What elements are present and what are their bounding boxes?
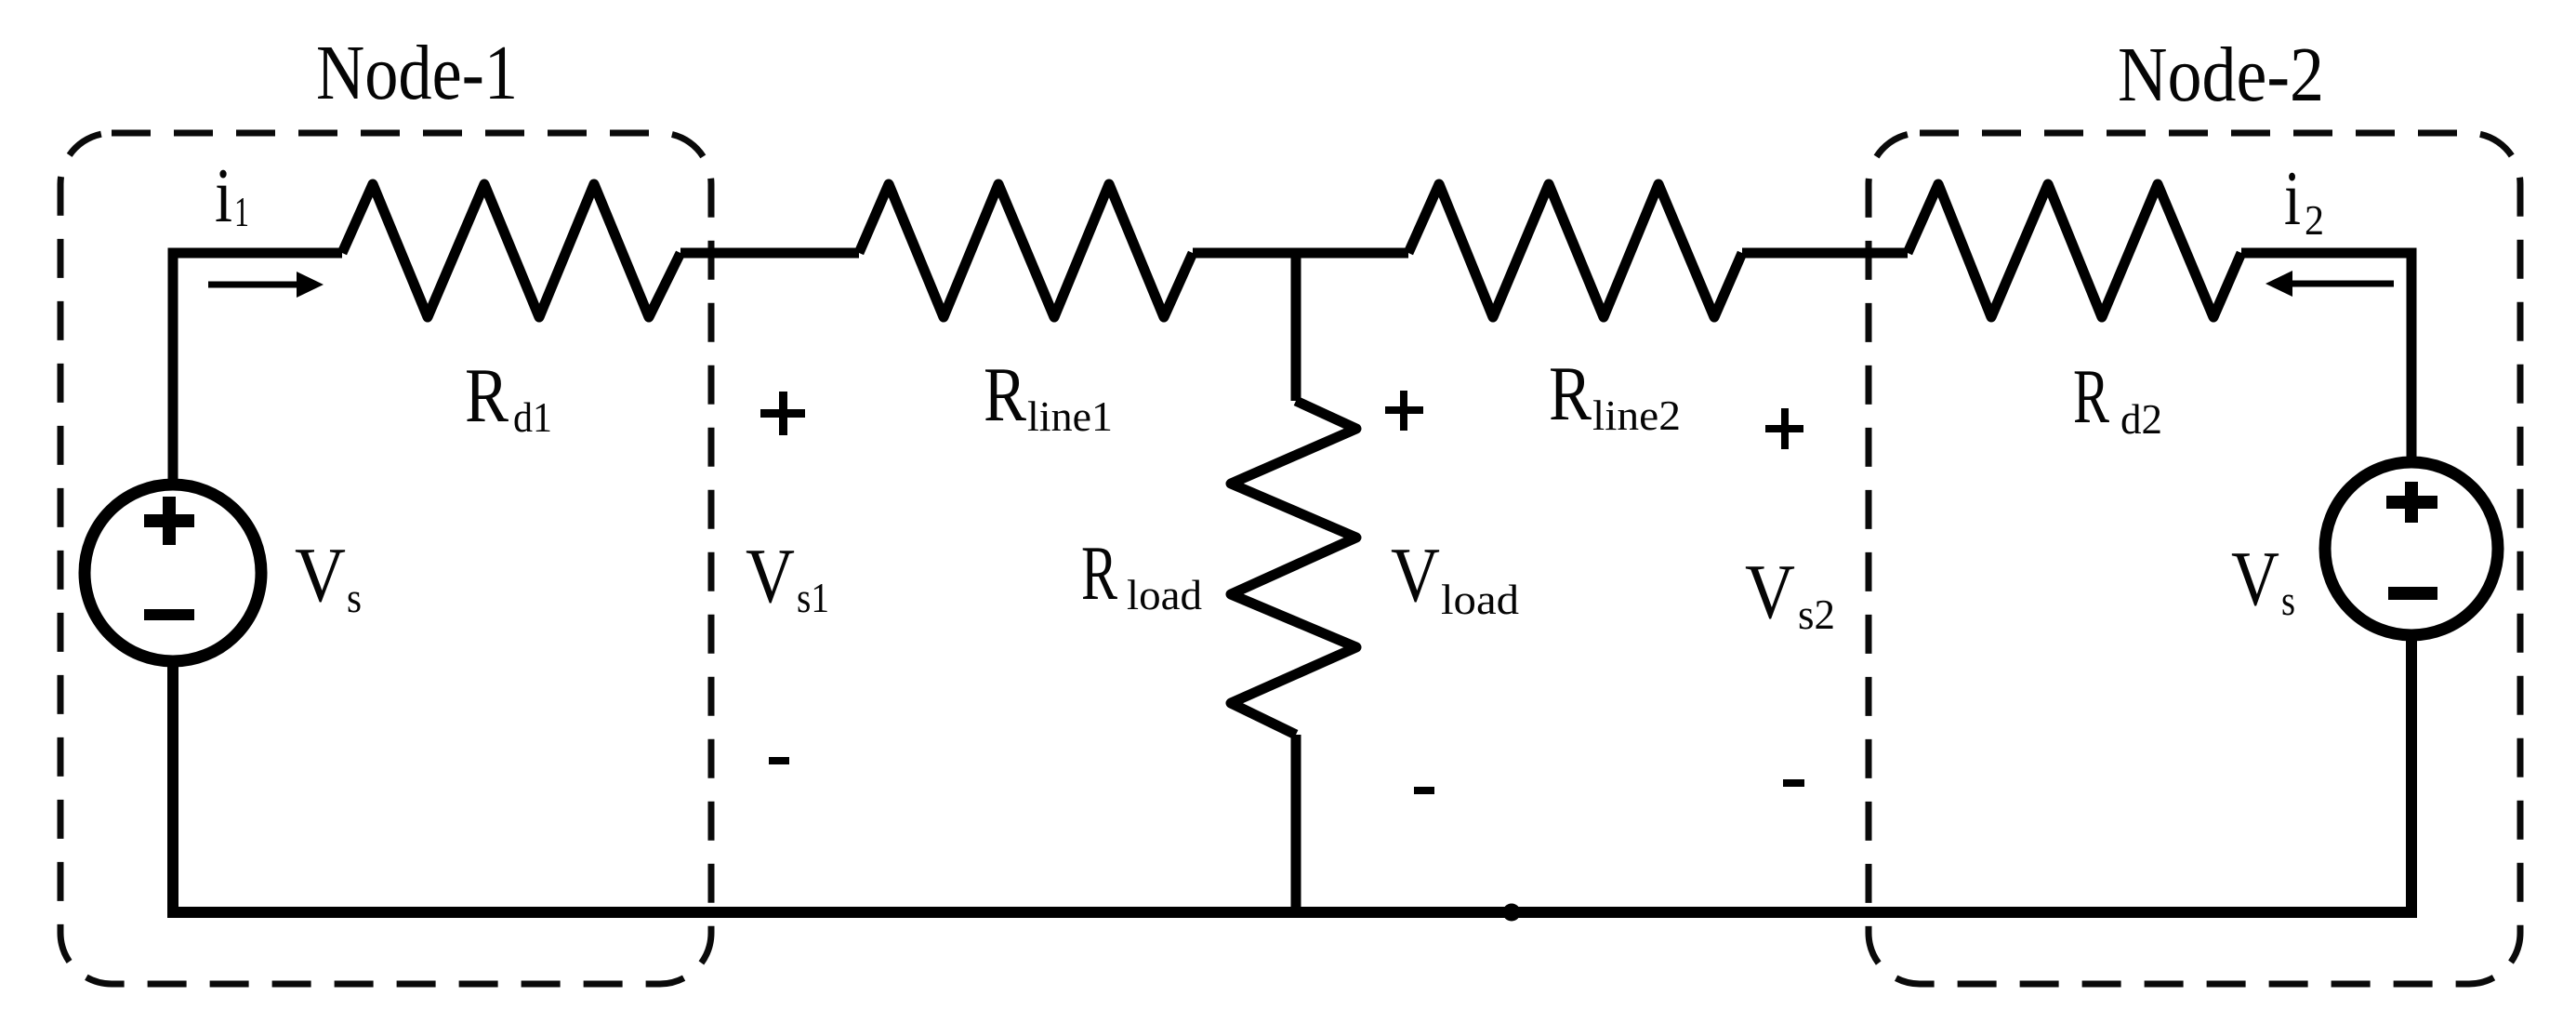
label + (Vload) xyxy=(1385,391,1423,431)
svg-text:i: i xyxy=(2284,155,2301,242)
resistor Rload xyxy=(1231,401,1356,735)
svg-text:s: s xyxy=(347,574,362,621)
label Rd1 xyxy=(465,352,552,441)
svg-text:s1: s1 xyxy=(797,574,829,621)
current arrow i2 xyxy=(2266,271,2394,297)
label Vs1 xyxy=(746,533,829,621)
wire: left branch top (source to Rd1) xyxy=(173,253,342,480)
wire: right branch top (Rd2 to source) xyxy=(2241,253,2411,457)
label Vs2 xyxy=(1745,549,1835,638)
svg-text:Node-2: Node-2 xyxy=(2118,32,2324,118)
svg-text:V: V xyxy=(1391,532,1440,618)
label Rline1 xyxy=(984,352,1113,440)
resistor Rline2 xyxy=(1408,184,1742,317)
svg-text:V: V xyxy=(1745,549,1795,635)
label Vs (right) xyxy=(2231,536,2295,624)
svg-text:d2: d2 xyxy=(2120,395,2162,443)
svg-text:V: V xyxy=(746,533,795,619)
svg-text:1: 1 xyxy=(234,188,249,235)
label Rd2 xyxy=(2073,353,2162,443)
svg-text:2: 2 xyxy=(2305,196,2324,244)
node boundary Node-2 (dashed box) xyxy=(1869,133,2520,984)
resistor Rd2 xyxy=(1908,184,2241,317)
svg-text:R: R xyxy=(1549,351,1592,437)
resistor Rline1 xyxy=(859,184,1193,317)
svg-text:line1: line1 xyxy=(1027,392,1113,440)
wire: Rload stem bottom xyxy=(1291,735,1301,912)
svg-text:R: R xyxy=(1081,530,1117,617)
wire: Rd1 to Rline1 xyxy=(680,248,859,259)
svg-text:line2: line2 xyxy=(1592,392,1681,439)
wire: Rline1 to Rline2 through node A xyxy=(1193,248,1408,259)
svg-text:Node-1: Node-1 xyxy=(316,30,518,116)
svg-text:load: load xyxy=(1441,576,1519,623)
resistor Rd1 xyxy=(342,184,680,317)
label Rline2 xyxy=(1549,351,1681,439)
label Rload xyxy=(1081,530,1202,618)
junction dot xyxy=(1503,904,1521,922)
label i1 xyxy=(215,153,249,239)
svg-text:R: R xyxy=(2073,353,2109,440)
svg-text:load: load xyxy=(1127,571,1202,618)
label + (Vs1) xyxy=(760,392,805,435)
label - (Vload) xyxy=(1414,787,1434,794)
svg-text:d1: d1 xyxy=(513,393,552,441)
svg-text:s: s xyxy=(2281,577,2295,624)
label - (Vs1) xyxy=(769,757,789,764)
svg-text:V: V xyxy=(295,532,346,618)
svg-text:R: R xyxy=(984,352,1026,438)
label Vload xyxy=(1391,532,1519,623)
label + (Vs2) xyxy=(1765,408,1803,449)
label Vs (left) xyxy=(295,532,362,621)
voltage source Vs (right) xyxy=(2325,462,2498,635)
wire: Rload stem top xyxy=(1291,253,1301,401)
svg-text:R: R xyxy=(465,352,509,439)
node boundary Node-1 (dashed box) xyxy=(60,133,711,984)
wire: bottom rail xyxy=(173,641,2411,912)
voltage source Vs (left) xyxy=(85,485,261,661)
svg-text:V: V xyxy=(2231,536,2279,622)
svg-text:i: i xyxy=(215,153,232,239)
label i2 xyxy=(2284,155,2324,244)
svg-text:s2: s2 xyxy=(1798,591,1835,638)
wire: Rline2 to Rd2 xyxy=(1742,248,1908,259)
label - (Vs2) xyxy=(1783,779,1804,787)
current arrow i1 xyxy=(208,272,324,298)
